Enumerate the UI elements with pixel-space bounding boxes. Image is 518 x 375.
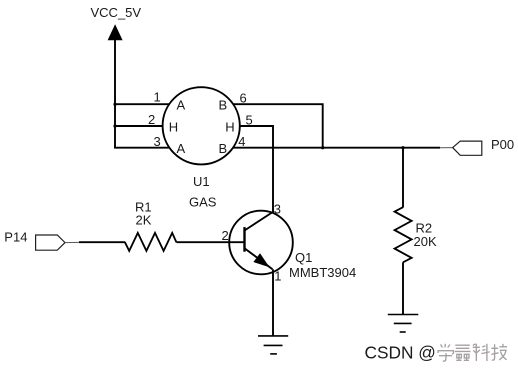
svg-text:1: 1	[274, 268, 281, 283]
svg-text:P14: P14	[4, 230, 27, 245]
port P14	[4, 230, 65, 251]
junction dot VCC/pin2	[113, 124, 116, 127]
resistor R1	[125, 233, 176, 251]
svg-text:2: 2	[148, 112, 155, 127]
pin line port P00	[440, 147, 453, 149]
svg-text:20K: 20K	[414, 234, 437, 249]
svg-text:3: 3	[274, 202, 281, 217]
pin line port P14	[65, 241, 79, 243]
watermark chinese characters	[438, 344, 508, 361]
svg-text:2K: 2K	[136, 213, 152, 228]
svg-text:U1: U1	[193, 174, 210, 189]
wire U1 pin 6	[233, 104, 323, 148]
ground under Q1	[258, 336, 288, 354]
svg-text:Q1: Q1	[295, 250, 312, 265]
ground under R2	[388, 315, 419, 333]
wire P14 to R1	[79, 241, 125, 243]
wire net P00	[233, 147, 440, 149]
svg-text:P00: P00	[491, 137, 514, 152]
resistor R2	[395, 207, 412, 262]
svg-text:1: 1	[154, 90, 161, 105]
junction dot VCC/pin1	[113, 103, 116, 106]
wire R1 to Q1 base	[176, 241, 244, 243]
svg-text:A: A	[177, 98, 186, 113]
wire P00 junction to R2	[402, 148, 404, 208]
svg-text:VCC_5V: VCC_5V	[91, 5, 142, 20]
wire U1 pin 2	[115, 125, 163, 127]
svg-text:A: A	[177, 141, 186, 156]
svg-text:2: 2	[222, 228, 229, 243]
svg-text:H: H	[225, 119, 234, 134]
svg-text:CSDN @: CSDN @	[365, 343, 436, 363]
svg-text:H: H	[169, 119, 178, 134]
wire U1 pin 3	[114, 147, 170, 149]
svg-text:B: B	[219, 141, 228, 156]
port P00	[453, 137, 514, 156]
svg-text:B: B	[219, 98, 228, 113]
wire Q1 emitter to ground	[272, 269, 274, 336]
wire U1 pin 5 to Q1 collector	[240, 126, 273, 213]
svg-text:3: 3	[154, 134, 161, 149]
wire U1 pin 1	[115, 103, 170, 105]
gas sensor U1 body	[163, 87, 240, 164]
junction dot pin6/P00	[321, 146, 324, 149]
svg-text:MMBT3904: MMBT3904	[289, 265, 356, 280]
transistor Q1	[229, 211, 293, 275]
svg-text:GAS: GAS	[189, 195, 217, 210]
wire R2 to ground	[402, 262, 404, 314]
power symbol VCC_5V	[91, 5, 142, 40]
wire VCC vertical	[114, 40, 116, 148]
junction dot R2/P00	[401, 146, 404, 149]
